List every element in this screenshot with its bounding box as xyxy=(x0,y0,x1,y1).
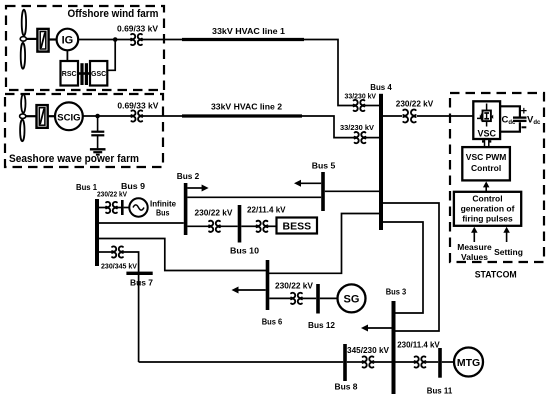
WT2 shaft xyxy=(26,115,37,117)
transformer 230/22 kV T10 xyxy=(291,293,302,304)
RSC converter box xyxy=(61,61,79,86)
load arrow Bus 2 xyxy=(187,185,208,192)
node A junction dot xyxy=(113,37,118,42)
arrow measure values xyxy=(471,227,478,242)
BESS box xyxy=(277,218,318,234)
svg-text:33kV HVAC line 1: 33kV HVAC line 1 xyxy=(212,27,286,36)
svg-text:22/11.4 kV: 22/11.4 kV xyxy=(247,206,286,215)
transformer 230/11.4 kV T12 xyxy=(415,356,426,367)
svg-text:230/22 kV: 230/22 kV xyxy=(396,99,434,108)
DC side loop wire xyxy=(500,106,520,116)
transformer 230/345 kV T9 xyxy=(112,246,123,257)
bus bar Bus 9 xyxy=(121,200,124,215)
wire T9 to Bus7 down xyxy=(124,252,139,362)
svg-text:230/22 kV: 230/22 kV xyxy=(97,190,127,199)
wire Bus1 to Bus2 xyxy=(99,222,184,224)
svg-text:Setting: Setting xyxy=(494,247,523,257)
svg-text:Seashore wave power farm: Seashore wave power farm xyxy=(9,153,139,165)
svg-text:230/22 kV: 230/22 kV xyxy=(195,208,234,217)
svg-text:Bus 3: Bus 3 xyxy=(386,288,407,297)
svg-text:230/345 kV: 230/345 kV xyxy=(101,262,138,271)
bus bar Bus 7 xyxy=(126,272,152,275)
wire T10 to Bus 12 xyxy=(303,297,317,299)
svg-text:Values: Values xyxy=(461,252,488,262)
bus bar Bus 8 xyxy=(343,344,347,381)
DC link wire xyxy=(78,72,90,75)
svg-text:STATCOM: STATCOM xyxy=(475,270,517,280)
VSC PWM Control box xyxy=(462,147,510,180)
wire Bus4 to T7 xyxy=(383,115,402,117)
wire T3 to Bus 9 xyxy=(117,207,121,209)
svg-text:Infinite: Infinite xyxy=(150,199,177,208)
svg-text:VSC PWM: VSC PWM xyxy=(466,152,507,162)
infinite bus generator G1 xyxy=(129,198,147,216)
transformer 230/22 kV T7 xyxy=(403,110,415,123)
bus bar Bus 12 xyxy=(316,284,320,314)
capacitor Cdc plates xyxy=(513,118,527,121)
wire gearbox-IG xyxy=(49,38,57,40)
wire Bus5 to Bus4 xyxy=(325,190,379,192)
load arrow Bus 5 xyxy=(294,180,321,187)
gearbox GB2 xyxy=(37,105,48,128)
33kV HVAC line 2 cable xyxy=(182,114,302,117)
wire SCIG to transformer xyxy=(83,115,131,117)
wire junction to GSC xyxy=(108,40,116,71)
shunt capacitor C1 xyxy=(91,132,104,136)
gearbox GB1 xyxy=(37,29,48,52)
svg-text:Bus 1: Bus 1 xyxy=(76,183,97,192)
WT1 shaft xyxy=(26,38,37,40)
wire HVAC1 to T5 xyxy=(304,40,353,106)
wire tie line east to Bus4 xyxy=(269,214,379,274)
wire T6 to Bus 4 xyxy=(366,137,379,139)
STATCOM dashed box xyxy=(450,93,544,262)
svg-text:230/22 kV: 230/22 kV xyxy=(275,282,314,291)
wire Bus4-Bus3 outer xyxy=(383,203,439,331)
minus sign xyxy=(522,126,527,128)
bus bar Bus 3 xyxy=(392,301,396,394)
transformer 230/22 kV T3 xyxy=(106,202,117,213)
ground symbol xyxy=(90,149,106,154)
GSC converter box xyxy=(90,61,107,86)
wire T8 to BESS xyxy=(268,225,277,227)
wire Bus1 to T9 xyxy=(99,251,112,253)
Control generation of firing pulses box xyxy=(454,192,521,226)
wire T5 to Bus 4 xyxy=(365,105,379,107)
svg-text:Bus 6: Bus 6 xyxy=(262,318,283,327)
svg-text:Offshore wind farm: Offshore wind farm xyxy=(68,8,159,20)
VSC converter box U1 xyxy=(473,101,500,139)
transformer 0.69/33 kV T2 xyxy=(131,110,142,121)
svg-text:IG: IG xyxy=(62,35,74,47)
wire Bus2 to T4 xyxy=(187,225,208,227)
bus bar Bus 11 xyxy=(438,348,442,378)
wire T12 to Bus 11 xyxy=(426,361,438,363)
svg-text:MTG: MTG xyxy=(457,357,480,369)
svg-text:SG: SG xyxy=(344,294,360,306)
offshore wind farm dashed box xyxy=(6,6,164,90)
svg-text:Bus 4: Bus 4 xyxy=(370,83,392,92)
wire Bus6 to T10 xyxy=(269,297,290,299)
bus bar Bus 10 xyxy=(238,205,242,243)
svg-text:Control: Control xyxy=(472,194,502,204)
svg-text:Bus 12: Bus 12 xyxy=(308,321,335,330)
load arrow Bus 3 xyxy=(361,325,392,332)
svg-text:Measure: Measure xyxy=(457,242,492,252)
svg-text:Bus 7: Bus 7 xyxy=(130,279,153,288)
wire IG to RSC xyxy=(66,50,68,61)
wire Bus1 tie line west xyxy=(99,239,266,271)
induction generator SCIG xyxy=(55,102,83,130)
wire Bus3 to T12 xyxy=(395,361,414,363)
wire T2 to HVAC line 2 xyxy=(142,115,182,117)
svg-text:BESS: BESS xyxy=(283,221,312,233)
DC link capacitor plates xyxy=(80,63,88,85)
wire T7 to VSC xyxy=(417,115,473,117)
transformer 345/230 kV T11 xyxy=(363,356,374,367)
svg-text:Bus: Bus xyxy=(156,208,170,217)
wave turbine WT2 xyxy=(20,94,26,141)
synchronous generator SG xyxy=(338,284,366,312)
wire T1 to HVAC line 1 xyxy=(142,39,182,41)
transformer 33/230 kV T5 xyxy=(354,100,365,111)
svg-text:GSC: GSC xyxy=(91,71,106,78)
wire T11 to Bus 3 xyxy=(374,361,392,363)
wire Bus4-Bus3 inner xyxy=(383,222,423,313)
svg-text:VSC: VSC xyxy=(478,129,497,139)
bus bar Bus 5 xyxy=(321,172,325,211)
wire IG to transformer xyxy=(78,39,131,41)
wire Bus7 to Bus8 xyxy=(139,361,344,363)
IGBT symbol inside VSC xyxy=(477,104,493,127)
micro turbine generator MTG xyxy=(454,348,483,377)
wire Bus8 to T11 xyxy=(347,361,362,363)
svg-text:RSC: RSC xyxy=(62,71,77,78)
shunt capacitor wire upper xyxy=(97,116,99,131)
induction generator IG xyxy=(57,29,79,51)
svg-text:345/230 kV: 345/230 kV xyxy=(347,346,390,355)
transformer 0.69/33 kV T1 xyxy=(131,34,142,45)
bus bar Bus 4 xyxy=(379,94,383,230)
wire HVAC2 to T6 xyxy=(302,116,354,138)
wire Bus10 to T8 xyxy=(241,225,256,227)
svg-text:Bus 10: Bus 10 xyxy=(230,247,259,256)
transformer 33/230 kV T6 xyxy=(355,132,366,143)
bus bar Bus 2 xyxy=(184,183,188,235)
transformer 230/22 kV T4 xyxy=(209,221,220,232)
firing pulse double-line arrow into VSC xyxy=(485,139,489,147)
svg-text:Bus 2: Bus 2 xyxy=(177,172,200,181)
wire gearbox-SCIG xyxy=(48,115,55,117)
load arrow Bus 6 xyxy=(232,287,266,294)
arrow setting xyxy=(503,227,510,242)
bus bar Bus 6 xyxy=(266,260,270,310)
bus bar Bus 1 xyxy=(95,199,99,266)
wire Bus11 to MTG xyxy=(442,361,454,363)
33kV HVAC line 1 cable xyxy=(182,38,304,41)
wire Bus12 to SG xyxy=(320,297,338,299)
svg-text:0.69/33 kV: 0.69/33 kV xyxy=(117,24,159,33)
svg-text:Bus 11: Bus 11 xyxy=(427,387,453,396)
svg-text:230/11.4 kV: 230/11.4 kV xyxy=(397,341,440,350)
wire T4 to Bus 10 xyxy=(221,225,238,227)
wire Bus 9 to infinite bus xyxy=(124,207,130,209)
node B junction dot xyxy=(95,114,100,119)
seashore wave power farm dashed box xyxy=(5,94,163,167)
svg-text:Bus 5: Bus 5 xyxy=(312,162,336,171)
wind turbine WT1 xyxy=(20,10,26,69)
svg-text:generation of: generation of xyxy=(461,204,515,214)
svg-text:33/230 kV: 33/230 kV xyxy=(340,123,374,132)
wire Bus2 to Bus5 xyxy=(187,196,321,198)
svg-text:SCIG: SCIG xyxy=(57,112,80,123)
svg-text:33/230 kV: 33/230 kV xyxy=(345,92,377,101)
svg-text:0.69/33 kV: 0.69/33 kV xyxy=(117,101,159,110)
wire Bus1 to T3 xyxy=(99,207,106,209)
arrow control to PWM xyxy=(483,181,490,191)
svg-text:Bus 8: Bus 8 xyxy=(335,383,358,392)
transformer 22/11.4 kV T8 xyxy=(257,221,268,232)
shunt capacitor wire lower xyxy=(97,136,99,149)
svg-text:Control: Control xyxy=(471,163,501,173)
svg-text:33kV HVAC line 2: 33kV HVAC line 2 xyxy=(211,102,283,111)
svg-text:firing pulses: firing pulses xyxy=(462,214,513,224)
